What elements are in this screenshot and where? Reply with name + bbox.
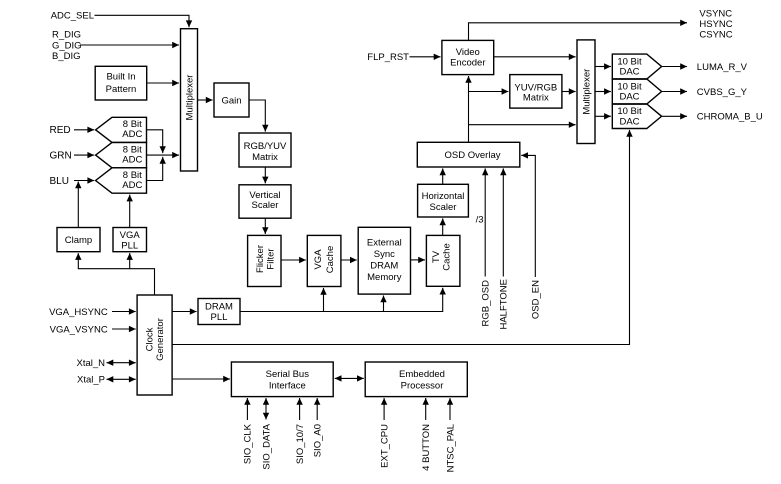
- svg-text:Embedded: Embedded: [399, 369, 445, 380]
- wire RGB_OSD to OSD Overlay: [484, 168, 486, 276]
- wire SIO_DATA bidirectional: [265, 398, 267, 420]
- wire ADC1 output down to bus junction: [147, 130, 163, 153]
- svg-text:Processor: Processor: [401, 380, 444, 391]
- wire Built In Pattern to multiplexer: [147, 82, 179, 84]
- converter 8 Bit ADC 1: [96, 117, 147, 142]
- converter 10 Bit DAC 2: [612, 79, 661, 104]
- wire NTSC_PAL to Embedded Processor: [449, 398, 451, 420]
- wire Flicker Filter to VGA Cache: [281, 259, 306, 261]
- block Gain: [214, 83, 249, 117]
- svg-text:SIO_CLK: SIO_CLK: [243, 423, 254, 464]
- svg-text:Scaler: Scaler: [252, 200, 279, 211]
- svg-text:Multiplexer: Multiplexer: [582, 69, 593, 115]
- svg-text:VGA_VSYNC: VGA_VSYNC: [50, 324, 108, 335]
- svg-text:RGB_OSD: RGB_OSD: [481, 280, 492, 327]
- svg-text:OSD_EN: OSD_EN: [531, 280, 542, 319]
- block Serial Bus Interface: [231, 362, 333, 397]
- block Clock Generator: [137, 295, 172, 395]
- wire YUV/RGB Matrix to output multiplexer: [562, 91, 576, 93]
- wire DAC1 to LUMA_R_V: [662, 66, 687, 68]
- svg-text:VGA_HSYNC: VGA_HSYNC: [49, 307, 108, 318]
- svg-text:Generator: Generator: [155, 318, 166, 361]
- wire DAC2 to CVBS_G_Y: [662, 91, 687, 93]
- block TV Cache: [426, 235, 460, 286]
- wire OSD_EN to OSD Overlay: [521, 155, 535, 277]
- svg-text:PLL: PLL: [211, 312, 228, 323]
- svg-text:CSYNC: CSYNC: [699, 29, 732, 40]
- svg-text:SIO_10/7: SIO_10/7: [295, 424, 306, 464]
- wire Clock Generator to DRAM PLL: [172, 311, 197, 313]
- wire BLU to ADC3: [74, 180, 94, 182]
- wire VGA_HSYNC to Clock Generator: [112, 311, 136, 313]
- svg-text:Video: Video: [456, 47, 480, 58]
- svg-text:FLP_RST: FLP_RST: [367, 52, 409, 63]
- wire SIO_CLK to Serial Bus Interface: [246, 398, 248, 420]
- wire VGA Cache to External Sync DRAM Memory: [341, 259, 357, 261]
- wire DRAM PLL to TV Cache (memory clock bus): [240, 288, 443, 312]
- wire SIO_10/7 to Serial Bus Interface: [299, 398, 301, 420]
- wire Horizontal Scaler to OSD Overlay: [442, 168, 444, 184]
- svg-text:Sync: Sync: [374, 249, 395, 260]
- svg-text:LUMA_R_V: LUMA_R_V: [697, 62, 748, 73]
- wire Video Encoder to output multiplexer: [494, 56, 576, 58]
- wire RGB/YUV Matrix to Vertical Scaler: [264, 167, 266, 183]
- converter 8 Bit ADC 2: [96, 142, 147, 167]
- wire OSD Overlay to Video Encoder: [468, 76, 470, 142]
- wire OSD branch to output multiplexer: [469, 124, 576, 126]
- svg-text:BLU: BLU: [50, 176, 69, 187]
- svg-text:SIO_A0: SIO_A0: [313, 424, 324, 457]
- block External Sync DRAM Memory: [358, 227, 410, 294]
- block Multiplexer (input mux): [181, 29, 198, 171]
- svg-text:RED: RED: [50, 125, 71, 136]
- converter 10 Bit DAC 1: [612, 54, 661, 79]
- block Built In Pattern: [95, 66, 147, 100]
- svg-text:4 BUTTON: 4 BUTTON: [421, 424, 432, 471]
- wire Clock Generator to Clamp: [78, 253, 154, 295]
- wire HALFTONE to OSD Overlay: [502, 168, 504, 276]
- svg-text:Clock: Clock: [145, 327, 156, 351]
- wire Clock Generator to DAC3 (pixel clock): [172, 130, 629, 345]
- wire Vertical Scaler to Flicker Filter: [264, 218, 266, 234]
- block OSD Overlay: [417, 142, 520, 167]
- block Multiplexer (output mux): [577, 40, 595, 144]
- wire ADC3 output up to bus junction: [147, 157, 163, 181]
- svg-text:DAC: DAC: [619, 67, 639, 78]
- svg-text:Horizontal: Horizontal: [422, 191, 465, 202]
- block Vertical Scaler: [239, 185, 291, 218]
- svg-text:OSD Overlay: OSD Overlay: [445, 150, 501, 161]
- svg-text:Cache: Cache: [441, 243, 452, 270]
- svg-text:ADC: ADC: [122, 155, 142, 166]
- svg-text:DAC: DAC: [619, 92, 639, 103]
- svg-text:G_DIG: G_DIG: [52, 40, 82, 51]
- svg-text:Serial Bus: Serial Bus: [266, 369, 310, 380]
- svg-text:Matrix: Matrix: [252, 152, 278, 163]
- svg-text:GRN: GRN: [50, 150, 72, 161]
- wire RED to ADC1: [74, 129, 94, 131]
- svg-text:Scaler: Scaler: [430, 202, 457, 213]
- svg-text:SIO_DATA: SIO_DATA: [261, 423, 272, 469]
- wire External Sync DRAM Memory to TV Cache: [411, 259, 426, 261]
- wire GRN to ADC2: [74, 154, 94, 156]
- svg-text:CHROMA_B_U: CHROMA_B_U: [697, 112, 763, 123]
- wire DAC3 to CHROMA_B_U: [662, 115, 687, 117]
- svg-text:CVBS_G_Y: CVBS_G_Y: [697, 87, 748, 98]
- wire Video Encoder to sync outputs: [469, 23, 688, 41]
- svg-text:Xtal_P: Xtal_P: [77, 375, 105, 386]
- wire branch to External Sync DRAM Memory: [383, 296, 385, 312]
- block VGA Cache: [307, 235, 341, 286]
- wire EXT_CPU to Embedded Processor: [383, 398, 385, 420]
- wire ADC2 output to multiplexer: [147, 154, 180, 156]
- wire Xtal_P bidirectional: [107, 378, 136, 380]
- svg-text:R_DIG: R_DIG: [52, 30, 81, 41]
- svg-text:Clamp: Clamp: [65, 235, 92, 246]
- wire Xtal_N bidirectional: [107, 362, 136, 364]
- svg-text:Gain: Gain: [221, 95, 241, 106]
- block Embedded Processor: [365, 362, 467, 397]
- wire SIO_A0 to Serial Bus Interface: [316, 398, 318, 420]
- svg-text:Filter: Filter: [266, 248, 277, 269]
- svg-text:DRAM: DRAM: [205, 301, 233, 312]
- wire 4 BUTTON to Embedded Processor: [425, 398, 427, 420]
- wire OSD branch to YUV/RGB Matrix: [469, 91, 509, 93]
- block DRAM PLL: [198, 299, 240, 325]
- block Horizontal Scaler: [418, 184, 469, 217]
- wire FLP_RST to Video Encoder: [410, 56, 441, 58]
- svg-text:Multiplexer: Multiplexer: [184, 75, 195, 121]
- block YUV/RGB Matrix: [510, 75, 562, 109]
- svg-text:Memory: Memory: [367, 272, 402, 283]
- svg-text:B_DIG: B_DIG: [52, 51, 81, 62]
- wire Gain to RGB/YUV Matrix: [249, 100, 265, 132]
- block Clamp: [57, 228, 100, 252]
- svg-text:TV: TV: [431, 250, 442, 263]
- svg-text:DAC: DAC: [619, 116, 639, 127]
- wire ADC_SEL to multiplexer top: [95, 15, 190, 27]
- svg-text:Cache: Cache: [325, 246, 336, 273]
- block VGA PLL: [113, 228, 147, 252]
- svg-text:Matrix: Matrix: [523, 92, 549, 103]
- svg-text:DRAM: DRAM: [370, 261, 398, 272]
- svg-text:ADC_SEL: ADC_SEL: [51, 11, 94, 22]
- svg-text:Encoder: Encoder: [450, 58, 485, 69]
- wire multiplexer to DAC2: [595, 91, 611, 93]
- svg-text:PLL: PLL: [121, 240, 138, 251]
- converter 10 Bit DAC 3: [612, 104, 661, 129]
- wire multiplexer to DAC1: [595, 66, 611, 68]
- wire TV Cache to Horizontal Scaler: [442, 218, 444, 235]
- svg-text:/3: /3: [476, 215, 484, 226]
- svg-text:EXT_CPU: EXT_CPU: [379, 424, 390, 468]
- svg-text:VGA: VGA: [313, 249, 324, 270]
- wire branch to VGA PLL: [129, 253, 131, 269]
- svg-text:Xtal_N: Xtal_N: [76, 358, 105, 369]
- wire G_DIG bus to multiplexer: [80, 44, 179, 46]
- wire multiplexer to Gain: [198, 99, 213, 101]
- svg-text:Pattern: Pattern: [106, 84, 137, 95]
- svg-text:Built In: Built In: [106, 72, 135, 83]
- wire multiplexer to DAC3: [595, 115, 611, 117]
- svg-text:ADC: ADC: [122, 180, 142, 191]
- block RGB/YUV Matrix: [239, 133, 291, 167]
- block Flicker Filter: [248, 235, 281, 286]
- svg-text:Flicker: Flicker: [255, 245, 266, 273]
- wire Clamp to BLU input node: [77, 182, 79, 228]
- svg-text:Interface: Interface: [269, 380, 306, 391]
- svg-text:HALFTONE: HALFTONE: [499, 279, 510, 330]
- wire VGA PLL to ADC3: [129, 195, 131, 228]
- wire branch to VGA Cache: [323, 288, 325, 312]
- svg-text:External: External: [367, 238, 402, 249]
- svg-text:ADC: ADC: [122, 129, 142, 140]
- wire Serial Bus Interface to Embedded Processor (bidirectional): [335, 377, 364, 379]
- wire Clock Generator to Serial Bus Interface: [172, 378, 230, 380]
- wire VGA_VSYNC to Clock Generator: [112, 328, 136, 330]
- block Video Encoder: [442, 40, 494, 74]
- svg-text:RGB/YUV: RGB/YUV: [244, 141, 287, 152]
- svg-text:NTSC_PAL: NTSC_PAL: [445, 424, 456, 472]
- converter 8 Bit ADC 3: [96, 168, 147, 193]
